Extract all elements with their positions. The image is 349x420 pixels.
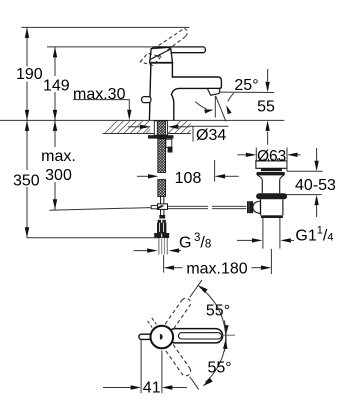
svg-text:55°: 55° [206,303,230,320]
dimension 149 [54,47,56,76]
top view spout stub [139,334,152,339]
supply pipe [158,238,160,255]
stem below cross [160,209,162,215]
dimension max.180 [163,255,165,273]
raised handle ghost (dashed) [154,28,185,49]
svg-text:108: 108 [175,170,202,187]
faucet body and spout outline [149,63,221,121]
dimension 41 [140,340,142,393]
dimension O34 [128,126,140,128]
drain neck [261,180,263,193]
350 reference line [27,237,158,239]
55 deg arc upper [206,292,226,351]
drain tailpipe [262,218,264,249]
spout aerator tip [207,88,220,95]
ghost handle lower (dashed, 55 deg) [146,317,203,393]
countertop surface line [0,119,284,121]
svg-text:190: 190 [16,66,43,83]
countertop hatching [105,121,201,134]
svg-text:300: 300 [45,167,72,184]
pop-up rod left segment [168,205,209,207]
svg-text:max.30: max.30 [73,86,126,103]
dimension 190 [26,27,28,66]
plug rim dark band [261,168,282,171]
hose elbow on shank [166,139,172,147]
dimension max.300 [54,120,56,147]
max.300 reference line [50,208,151,211]
countertop bottom line [103,133,191,135]
G3/8 supply connector [158,220,166,223]
pull rod lower section (threaded) [158,180,166,197]
dimension G1 1/4 [237,239,252,241]
taper to neck [258,175,284,180]
plug lip [256,172,285,175]
dimension 108 [137,175,149,177]
top view lever arm [168,329,223,343]
pop-up rod right segment [212,205,246,207]
svg-text:Ø63: Ø63 [257,148,286,165]
svg-text:149: 149 [43,77,70,94]
backnut washer [148,135,174,138]
reference line top (190) [21,26,189,28]
svg-text:max.: max. [41,148,76,165]
threaded shank in countertop [154,121,167,135]
drain rosette flange [256,193,287,199]
svg-text:25°: 25° [234,77,258,94]
drain body bottom rim [261,215,283,218]
svg-text:40-53: 40-53 [295,177,336,194]
dimension G 3/8 [134,250,148,252]
pop-up cross fitting [158,204,168,210]
svg-text:55°: 55° [207,360,231,377]
pull rod upper section (threaded) [158,139,166,173]
pull rod stem [160,197,162,205]
top view faucet base circle [151,326,174,349]
rod lever housing horn [253,201,261,213]
svg-text:55: 55 [257,99,275,116]
pop-up pull knob (side view) [142,97,151,103]
svg-text:41: 41 [143,379,161,396]
dimension O63 [255,148,257,161]
cartridge ghost (dashed) [140,53,160,65]
svg-text:350: 350 [13,172,40,189]
dimension 40-53 [287,170,323,172]
svg-text:max.180: max.180 [186,261,247,278]
dimension 55 [267,69,269,82]
drain body [260,199,262,215]
svg-text:Ø34: Ø34 [196,127,226,144]
faucet lever handle (rest position) [152,47,205,53]
center dot [160,334,163,340]
ghost handle upper (dashed, 55 deg) [165,277,206,329]
55 deg arc lower [205,321,226,383]
faucet handle base / cartridge [150,47,173,63]
lever centerline [221,334,235,336]
rod knob at drain [247,201,253,213]
drain plug cap [256,161,287,168]
dimension 350 [26,120,28,170]
top view lever inner slot [179,333,222,339]
reference line handle top (149) [47,46,161,48]
